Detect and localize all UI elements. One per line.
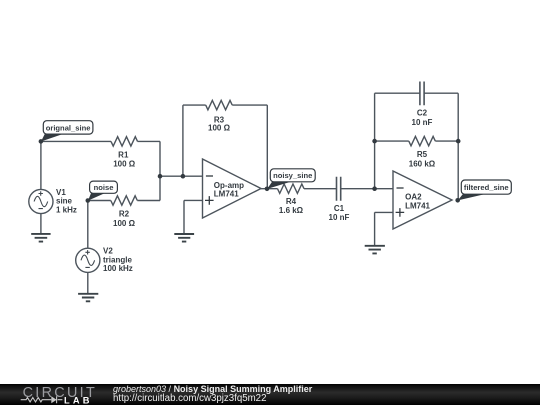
svg-text:C1: C1: [334, 204, 345, 213]
svg-text:R5: R5: [417, 150, 428, 159]
svg-text:100 kHz: 100 kHz: [103, 264, 133, 273]
svg-text:1.6 kΩ: 1.6 kΩ: [279, 206, 304, 215]
svg-text:filtered_sine: filtered_sine: [464, 183, 509, 192]
svg-text:LM741: LM741: [214, 190, 239, 199]
svg-text:R1: R1: [118, 150, 129, 159]
svg-text:noise: noise: [94, 183, 114, 192]
svg-text:sine: sine: [56, 197, 73, 206]
svg-text:10 nF: 10 nF: [412, 118, 433, 127]
svg-text:LAB: LAB: [64, 396, 93, 405]
svg-text:1 kHz: 1 kHz: [56, 205, 77, 214]
svg-text:orignal_sine: orignal_sine: [46, 123, 91, 132]
svg-text:LM741: LM741: [405, 201, 430, 210]
svg-text:noisy_sine: noisy_sine: [273, 171, 312, 180]
svg-text:Op-amp: Op-amp: [214, 181, 244, 190]
svg-text:triangle: triangle: [103, 255, 132, 264]
svg-text:R4: R4: [286, 197, 297, 206]
svg-text:160 kΩ: 160 kΩ: [409, 159, 436, 168]
svg-text:100 Ω: 100 Ω: [113, 219, 136, 228]
svg-text:V2: V2: [103, 247, 113, 256]
svg-text:10 nF: 10 nF: [329, 213, 350, 222]
svg-text:100 Ω: 100 Ω: [208, 124, 231, 133]
svg-text:OA2: OA2: [405, 192, 422, 201]
svg-text:R2: R2: [119, 210, 130, 219]
svg-text:C2: C2: [417, 109, 428, 118]
svg-text:V1: V1: [56, 188, 66, 197]
svg-text:100 Ω: 100 Ω: [113, 159, 136, 168]
